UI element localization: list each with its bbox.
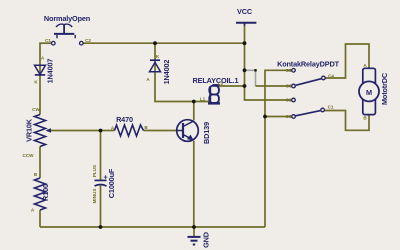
svg-text:CCW: CCW xyxy=(23,153,35,158)
wire xyxy=(101,130,115,132)
svg-text:C1000uF: C1000uF xyxy=(107,168,116,198)
svg-text:PLUS: PLUS xyxy=(92,165,97,177)
wire xyxy=(265,116,292,118)
svg-text:C2: C2 xyxy=(286,98,292,103)
svg-text:L1: L1 xyxy=(200,97,206,102)
svg-text:RELAYCOIL.1: RELAYCOIL.1 xyxy=(193,76,239,85)
wire xyxy=(193,102,195,121)
svg-text:C1: C1 xyxy=(45,38,51,43)
svg-text:C3: C3 xyxy=(286,114,292,119)
wire xyxy=(100,131,102,180)
wire xyxy=(193,141,195,227)
wire xyxy=(39,210,41,227)
svg-text:NormalyOpen: NormalyOpen xyxy=(44,14,90,23)
capacitor C1 C1000uF xyxy=(92,165,116,204)
ground xyxy=(188,232,211,248)
resistor R470 xyxy=(111,115,149,136)
svg-text:BD139: BD139 xyxy=(202,122,211,144)
wire xyxy=(219,85,245,87)
potentiometer VR10K xyxy=(23,107,51,158)
svg-text:C6: C6 xyxy=(286,84,292,89)
svg-text:C5: C5 xyxy=(286,68,292,73)
svg-text:M: M xyxy=(366,88,372,97)
svg-text:VR10K: VR10K xyxy=(24,118,33,142)
wire xyxy=(83,42,244,44)
wire xyxy=(245,24,292,100)
svg-text:CW: CW xyxy=(32,107,40,112)
wire xyxy=(47,130,101,132)
svg-text:R470: R470 xyxy=(116,115,133,124)
wire xyxy=(325,44,369,78)
svg-text:L2: L2 xyxy=(218,81,224,86)
relay coil RELAYCOIL.1 xyxy=(193,76,239,103)
svg-text:1N4002: 1N4002 xyxy=(162,60,171,85)
svg-text:C1: C1 xyxy=(328,105,334,110)
wire (ground bus) xyxy=(40,226,265,228)
wire xyxy=(41,42,51,44)
svg-text:C4: C4 xyxy=(328,74,334,79)
wire xyxy=(325,111,369,131)
motor M1 MototrDC xyxy=(359,63,389,121)
diode D1 1N4007 xyxy=(34,56,54,85)
svg-text:GND: GND xyxy=(202,232,211,248)
relay contacts KontakRelayDPDT xyxy=(277,60,340,120)
diode D2 1N4002 xyxy=(146,54,171,84)
svg-text:C2: C2 xyxy=(85,38,91,43)
wire xyxy=(144,130,177,132)
wire xyxy=(40,43,41,114)
transistor Q1 BD139 xyxy=(177,120,211,144)
node junction dots xyxy=(99,41,267,229)
wire xyxy=(39,147,41,179)
resistor R100 xyxy=(31,172,50,213)
svg-text:R100: R100 xyxy=(41,184,50,201)
svg-text:MINUS: MINUS xyxy=(92,189,97,204)
wire (grey step) xyxy=(245,70,256,86)
svg-text:1N4007: 1N4007 xyxy=(45,59,54,84)
pushbutton S1 NormalyOpen xyxy=(44,14,91,45)
wire xyxy=(193,227,195,236)
wire xyxy=(256,85,292,87)
power VCC xyxy=(236,7,256,26)
wire xyxy=(100,186,102,228)
svg-text:MototrDC: MototrDC xyxy=(380,72,389,105)
svg-text:VCC: VCC xyxy=(237,7,253,16)
wire xyxy=(155,43,209,101)
wire xyxy=(265,70,292,227)
